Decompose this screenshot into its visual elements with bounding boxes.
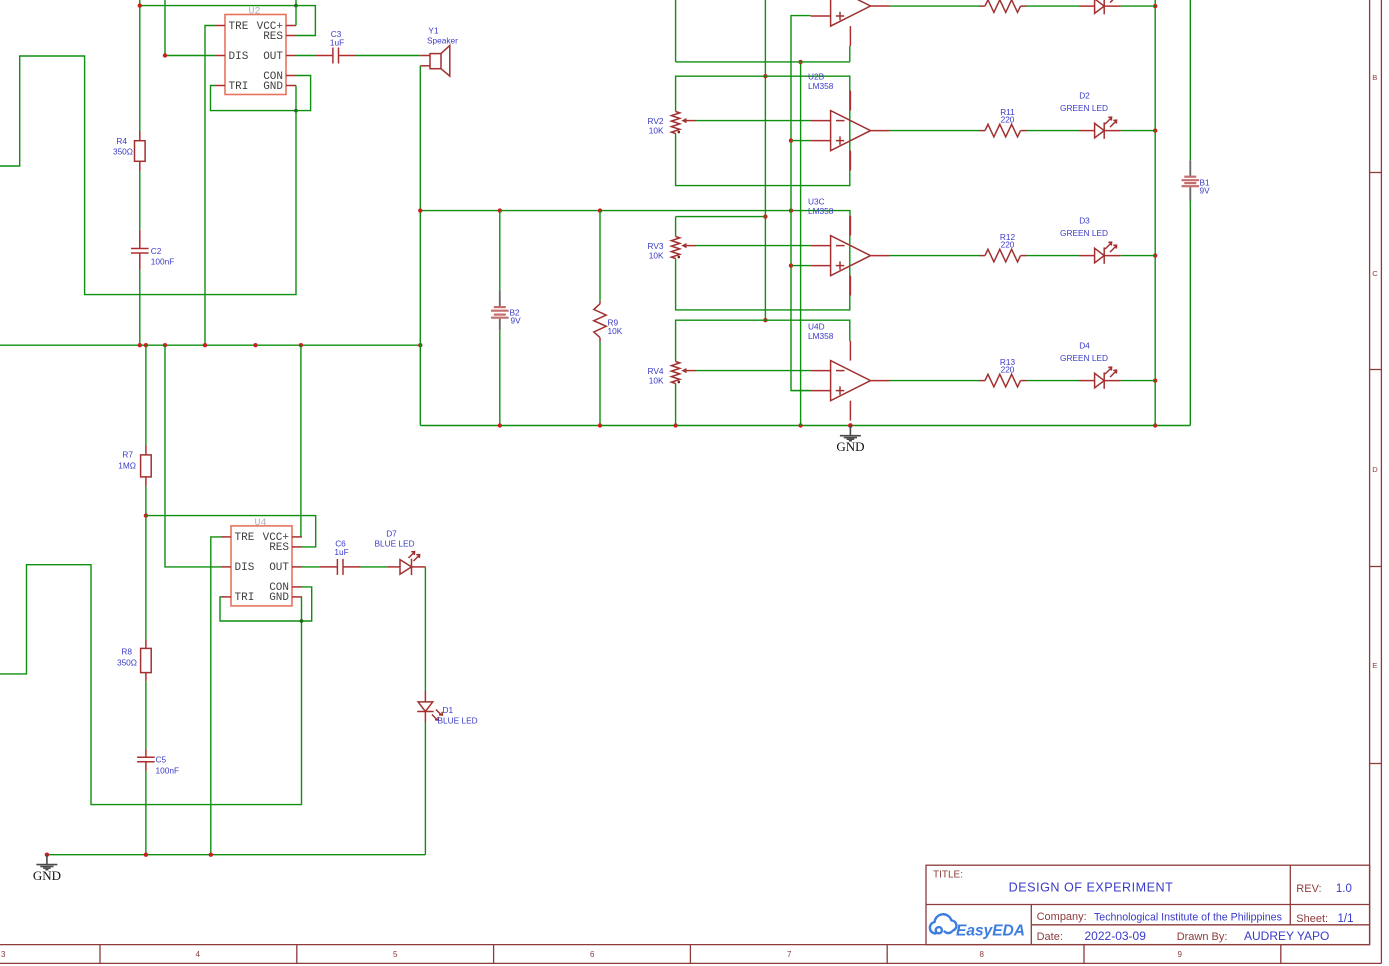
resistor R11 220	[979, 124, 1027, 137]
wire cut-off stage loop bottom	[676, 0, 850, 62]
wire plus-input vertical B	[791, 16, 811, 391]
wire speaker to buses and B1 corner	[419, 66, 421, 426]
svg-text:D4: D4	[1079, 341, 1090, 351]
svg-text:TITLE:: TITLE:	[933, 869, 963, 880]
svg-text:Company:: Company:	[1037, 911, 1087, 923]
svg-text:TRI: TRI	[229, 81, 249, 93]
wire lower bus	[47, 854, 426, 856]
capacitor C6	[320, 559, 361, 575]
svg-text:D3: D3	[1079, 216, 1090, 226]
svg-text:OUT: OUT	[269, 562, 289, 574]
svg-text:R8: R8	[121, 647, 132, 657]
wire OUT to C3	[296, 55, 316, 57]
LED D5 (cut off)	[1079, 5, 1121, 7]
wire TRE to bus	[205, 26, 215, 346]
wire C3 to speaker	[356, 55, 420, 57]
svg-text:RV3: RV3	[648, 241, 664, 251]
svg-text:100nF: 100nF	[151, 257, 175, 267]
svg-text:E: E	[1372, 661, 1377, 670]
svg-text:10K: 10K	[649, 376, 664, 386]
wire U4 TRE to lower bus	[211, 537, 221, 855]
ground symbol GND (op-amp section)	[848, 423, 853, 428]
U4 pin stubs	[221, 537, 302, 597]
svg-text:TRE: TRE	[229, 21, 249, 33]
svg-text:DESIGN OF EXPERIMENT: DESIGN OF EXPERIMENT	[1009, 881, 1174, 895]
timer IC U4 (555)	[231, 526, 292, 606]
svg-text:1/1: 1/1	[1338, 913, 1354, 925]
wire D1 to lower bus	[424, 722, 426, 855]
wire D3 to rail	[1121, 255, 1156, 257]
wire R7 chain from bus	[145, 345, 147, 445]
wire ground vertical C	[800, 62, 802, 426]
svg-text:R7: R7	[122, 450, 133, 460]
junction supply nodes	[418, 208, 422, 212]
wire R8 to C5	[145, 681, 147, 749]
resistor R4	[139, 131, 141, 171]
svg-text:BLUE LED: BLUE LED	[438, 716, 478, 726]
svg-text:U4: U4	[255, 518, 267, 529]
svg-text:220: 220	[1001, 115, 1015, 125]
capacitor C3	[316, 48, 356, 64]
svg-text:GND: GND	[836, 439, 864, 454]
wire D2 to rail	[1121, 130, 1156, 132]
resistor R8	[145, 640, 147, 682]
svg-text:TRI: TRI	[235, 592, 255, 604]
svg-text:RES: RES	[263, 31, 283, 43]
EasyEDA logo	[930, 914, 957, 933]
resistor R9	[599, 211, 601, 301]
wire plus input U2B	[791, 140, 811, 142]
svg-text:5: 5	[393, 950, 398, 959]
svg-text:GND: GND	[269, 592, 289, 604]
svg-text:RV4: RV4	[648, 366, 664, 376]
svg-text:10K: 10K	[649, 251, 664, 261]
svg-text:DIS: DIS	[229, 51, 249, 63]
battery B1 9V	[1189, 160, 1191, 200]
ground symbol GND (lower left)	[36, 855, 57, 870]
wire pot-top line U3C to supply vertical	[676, 216, 766, 218]
capacitor C5	[137, 749, 155, 771]
potentiometer RV4 10K	[671, 362, 679, 384]
svg-text:1.0: 1.0	[1336, 883, 1352, 895]
wire C5 to lower bus	[145, 771, 147, 855]
svg-text:350Ω: 350Ω	[117, 658, 137, 668]
svg-text:9: 9	[1178, 950, 1183, 959]
svg-text:LM358: LM358	[808, 206, 834, 216]
svg-text:100nF: 100nF	[156, 766, 180, 776]
svg-text:8: 8	[980, 950, 985, 959]
svg-text:D: D	[1372, 465, 1378, 474]
wire TRI-CON loop	[211, 76, 311, 111]
wire U4 TRI-CON loop	[220, 587, 312, 621]
svg-text:LM358: LM358	[808, 331, 834, 341]
svg-text:GREEN LED: GREEN LED	[1060, 228, 1108, 238]
wire U3C feedback box	[676, 216, 850, 310]
wire supply vertical A	[764, 0, 766, 320]
svg-text:C5: C5	[156, 755, 167, 765]
wire R11 to D2	[1027, 130, 1080, 132]
LED D3 GREEN	[1079, 255, 1121, 257]
svg-text:220: 220	[1001, 240, 1015, 250]
capacitor C2	[131, 230, 149, 271]
wire U2B feedback box	[676, 76, 850, 185]
svg-text:6: 6	[590, 950, 595, 959]
svg-text:BLUE LED: BLUE LED	[374, 539, 414, 549]
svg-text:7: 7	[787, 950, 792, 959]
wire D7 down to D1	[424, 567, 426, 691]
junction R7/RES node	[144, 513, 148, 517]
LED D4 GREEN	[1079, 380, 1121, 382]
battery B1 rail	[1189, 0, 1191, 160]
title block	[926, 865, 1370, 944]
wire VCC+ riser	[295, 0, 297, 26]
wire C2 to bus	[139, 270, 141, 345]
svg-text:B: B	[1372, 73, 1377, 82]
svg-text:GREEN LED: GREEN LED	[1060, 103, 1108, 113]
junction lower bus nodes	[45, 853, 49, 857]
svg-text:1uF: 1uF	[330, 37, 344, 47]
wire lower op-amp bus	[420, 425, 1190, 427]
svg-text:U3C: U3C	[808, 197, 825, 207]
svg-text:Technological Institute of the: Technological Institute of the Philippin…	[1094, 912, 1282, 924]
svg-text:C: C	[1372, 269, 1378, 278]
svg-text:EasyEDA: EasyEDA	[956, 923, 1025, 940]
svg-text:U2B: U2B	[808, 72, 825, 82]
svg-text:GND: GND	[33, 868, 61, 883]
wire U4 GND staircase to left edge	[0, 565, 302, 805]
resistor R12 220	[979, 249, 1027, 262]
svg-text:10K: 10K	[608, 326, 623, 336]
wire U2A output	[890, 5, 980, 7]
wire junction to RES of U4	[146, 516, 316, 547]
wire LED rail	[1154, 0, 1156, 426]
svg-text:AUDREY YAPO: AUDREY YAPO	[1244, 929, 1329, 943]
LED D7	[388, 566, 425, 568]
wire U4 VCC+ riser from bus	[300, 345, 302, 537]
wire RV2 wiper to inverting input	[696, 120, 811, 122]
wire R13 to D4	[1027, 380, 1080, 382]
svg-text:D2: D2	[1079, 91, 1090, 101]
wire DIS from top	[165, 0, 215, 56]
timer IC U2 (555)	[225, 15, 286, 95]
wire plus input U3C	[791, 265, 811, 267]
svg-text:Speaker: Speaker	[427, 36, 458, 46]
svg-text:REV:: REV:	[1296, 883, 1321, 895]
resistor R7	[145, 445, 147, 486]
svg-text:Y1: Y1	[428, 26, 439, 36]
wire U4 OUT to C6	[302, 566, 320, 568]
svg-text:RES: RES	[269, 542, 289, 554]
wire R7 to R8	[145, 486, 147, 639]
svg-text:D7: D7	[386, 528, 397, 538]
op-amp U2A (cut off at top)	[831, 0, 871, 26]
svg-text:9V: 9V	[511, 316, 522, 326]
svg-text:C2: C2	[151, 246, 162, 256]
svg-text:LM358: LM358	[808, 81, 834, 91]
svg-text:1MΩ: 1MΩ	[118, 461, 136, 471]
svg-text:4: 4	[196, 950, 201, 959]
svg-text:U4D: U4D	[808, 322, 825, 332]
LED D2 GREEN	[1079, 130, 1121, 132]
svg-text:RV2: RV2	[648, 116, 664, 126]
svg-text:2022-03-09: 2022-03-09	[1085, 929, 1147, 943]
wire U4D output to R13	[890, 380, 980, 382]
wire GND staircase to left edge	[0, 56, 296, 295]
battery B2 9V	[499, 211, 501, 291]
svg-text:10K: 10K	[649, 126, 664, 136]
U2 pin stubs	[215, 26, 296, 86]
wire U4 DIS from bus	[165, 345, 221, 567]
wire U2B output to R11	[890, 130, 980, 132]
wire main bus	[0, 344, 420, 346]
wire U3C output to R12	[890, 255, 980, 257]
junction bus nodes	[138, 343, 142, 347]
svg-text:220: 220	[1001, 365, 1015, 375]
wire RV3 wiper to inverting input	[696, 245, 811, 247]
potentiometer RV2 10K	[671, 112, 679, 134]
svg-text:GREEN LED: GREEN LED	[1060, 353, 1108, 363]
resistor R13 220	[979, 374, 1027, 387]
speaker Y1	[420, 56, 430, 66]
junction DIS corner	[163, 53, 167, 57]
wire D4 to rail	[1121, 380, 1156, 382]
junction U4 GND loop (dark)	[300, 619, 304, 623]
svg-text:U2: U2	[249, 7, 261, 18]
wire R4 to C2	[139, 171, 141, 229]
junction GND loop (dark)	[294, 109, 298, 113]
svg-text:DIS: DIS	[235, 562, 255, 574]
svg-text:1uF: 1uF	[334, 547, 348, 557]
junction VCC riser (dark)	[294, 4, 298, 8]
svg-text:R4: R4	[116, 136, 127, 146]
svg-text:Date:: Date:	[1037, 931, 1063, 943]
svg-text:350Ω: 350Ω	[113, 147, 133, 157]
wire plus input U4D	[791, 390, 811, 392]
svg-text:Sheet:: Sheet:	[1296, 913, 1328, 925]
wire top rail to VCC/RES	[140, 6, 316, 36]
resistor R10 (cut off)	[979, 0, 1027, 12]
potentiometer RV3 10K	[671, 237, 679, 259]
wire R4 top feed	[139, 0, 141, 131]
svg-text:9V: 9V	[1200, 186, 1211, 196]
svg-text:Drawn By:: Drawn By:	[1177, 931, 1228, 943]
LED D1	[424, 691, 426, 722]
junction node top rail	[138, 3, 142, 7]
svg-text:3: 3	[1, 950, 6, 959]
wire RV4 wiper to inverting input	[696, 370, 811, 372]
svg-text:D1: D1	[443, 705, 454, 715]
svg-text:OUT: OUT	[263, 51, 283, 63]
svg-text:TRE: TRE	[235, 532, 255, 544]
wire supply rail from speaker node to U3C V+	[420, 211, 850, 216]
wire C6 to D7	[361, 566, 389, 568]
wire R12 to D3	[1027, 255, 1080, 257]
svg-text:GND: GND	[263, 81, 283, 93]
wire U4D feedback box	[676, 320, 850, 425]
